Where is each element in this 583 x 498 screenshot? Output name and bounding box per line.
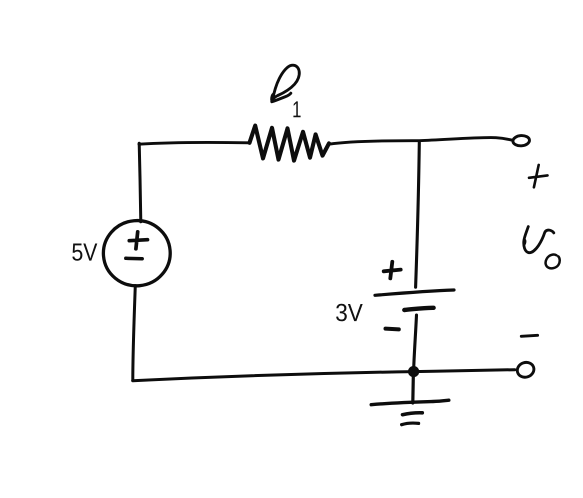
battery 3V minus sign [386,327,399,332]
voltage source V1 plus sign [129,232,147,249]
resistor R1 zigzag [250,126,330,161]
wire battery to junction [414,315,417,372]
battery 3V top plate (long) [375,290,454,295]
label R1 script R [272,65,299,101]
output minus sign [521,335,537,336]
wire top-left horizontal segment [139,142,250,144]
wire left vertical (bottom, source to corner) [133,286,136,381]
voltage source V1 circle [101,218,173,289]
junction node dot [408,366,419,377]
terminal bottom-right open circle [515,360,535,379]
ground symbol line 3 (bottom) [402,423,419,425]
voltage source V1 minus sign [126,257,142,261]
wire top-right segment (resistor to terminal) [329,138,512,145]
output plus sign [529,165,548,187]
label Vo script v [524,227,554,253]
ground symbol line 2 (middle) [403,413,423,415]
terminal top-right open circle [513,135,530,146]
wire bottom horizontal [133,370,515,381]
label R1 subscript 1 [293,101,300,117]
label 5V [72,244,97,261]
label 3V [336,304,363,322]
battery 3V bottom plate (short) [404,308,433,310]
label Vo subscript o [546,255,560,269]
battery 3V plus sign [384,262,401,279]
wire right branch vertical (top node down to battery) [416,143,420,288]
ground symbol line 1 (long) [371,400,449,405]
wire left vertical (top, corner to source) [139,143,141,222]
wire junction to ground [411,372,415,403]
